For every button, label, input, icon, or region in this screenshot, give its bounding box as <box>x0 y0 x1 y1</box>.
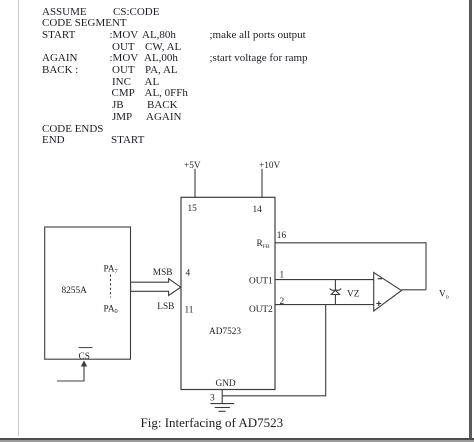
svg-text:14: 14 <box>253 205 263 215</box>
AD7523 IC box <box>181 197 275 389</box>
svg-text:GND: GND <box>216 379 236 389</box>
svg-text:3: 3 <box>210 393 215 403</box>
svg-text:16: 16 <box>277 231 287 241</box>
op-amp U1 <box>374 273 402 312</box>
svg-text:8255A: 8255A <box>62 286 88 296</box>
dotted pin-range line <box>110 275 112 298</box>
wire OUT2 node to ground <box>222 305 326 396</box>
op-amp plus <box>376 301 381 306</box>
figure caption <box>141 416 284 429</box>
8255A IC box <box>45 227 131 359</box>
op-amp minus <box>378 278 383 280</box>
svg-text:LSB: LSB <box>157 302 174 312</box>
page chrome: faint left rule <box>18 0 19 436</box>
output wire <box>402 289 427 291</box>
svg-text:AD7523: AD7523 <box>209 327 241 337</box>
svg-text:15: 15 <box>188 204 198 214</box>
svg-text:PA7: PA7 <box>104 265 118 276</box>
page chrome: right dark rule <box>469 0 472 442</box>
chip-select arrowhead <box>81 361 87 367</box>
+5V wire to pin 15 <box>194 169 196 197</box>
pin 3 stub <box>221 390 223 404</box>
svg-text:PA0: PA0 <box>104 305 118 316</box>
svg-text:4: 4 <box>186 268 191 278</box>
+10V wire to pin 14 <box>261 169 263 197</box>
svg-text:OUT1: OUT1 <box>249 276 273 286</box>
svg-text:RFB: RFB <box>257 239 270 250</box>
zener diode VZ <box>330 280 342 305</box>
svg-text:CS: CS <box>79 352 90 362</box>
assembly listing <box>42 7 87 18</box>
feedback wire pin16 to op-amp output <box>275 243 426 290</box>
svg-text:2: 2 <box>280 297 285 307</box>
svg-text:11: 11 <box>185 305 194 315</box>
svg-text:MSB: MSB <box>153 268 173 278</box>
svg-text:+5V: +5V <box>184 161 201 171</box>
chip-select wire <box>57 362 84 381</box>
svg-text:VZ: VZ <box>347 289 360 299</box>
svg-text:OUT2: OUT2 <box>249 305 273 315</box>
CS overline <box>79 347 93 349</box>
data bus arrow MSB..LSB <box>131 279 181 296</box>
svg-text:Vo: Vo <box>439 290 449 301</box>
ground symbol <box>210 404 234 412</box>
wire OUT1 to inverting input <box>275 279 374 281</box>
wire OUT2 to non-inverting input <box>275 304 374 306</box>
page chrome: bottom divider <box>0 438 474 440</box>
